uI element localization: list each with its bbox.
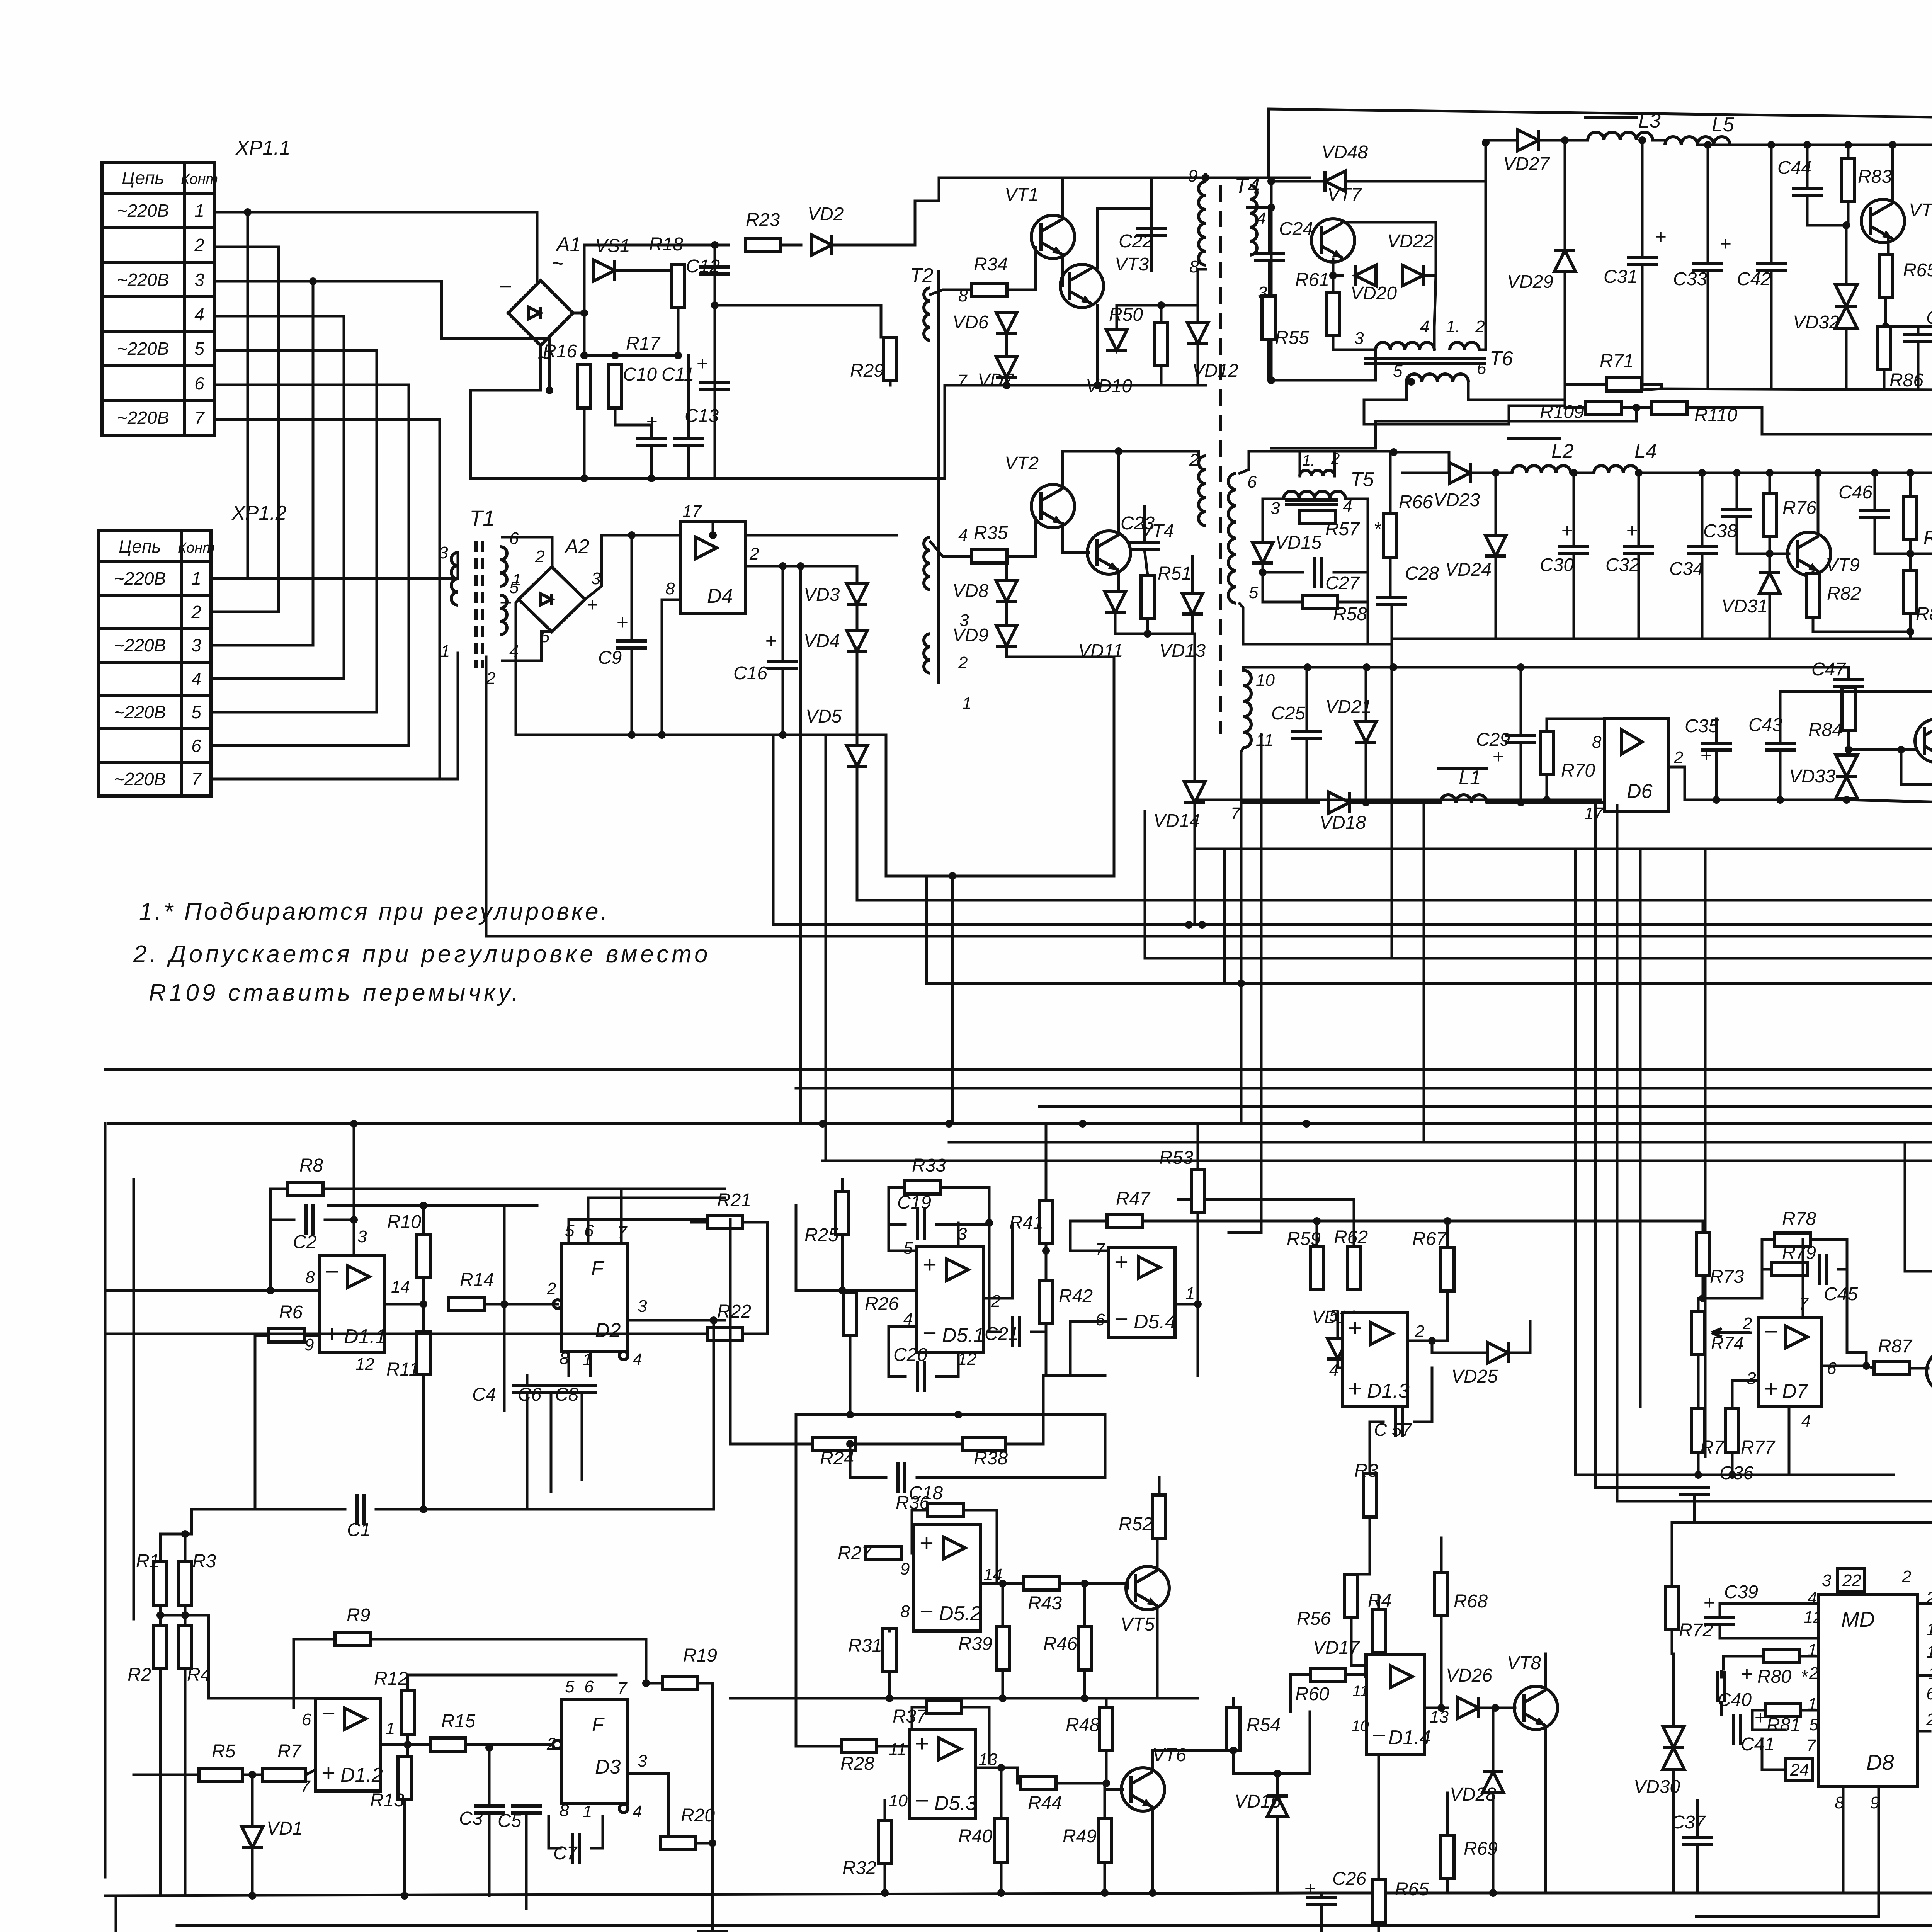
resistor R87	[1874, 1336, 1913, 1375]
svg-text:C36: C36	[1719, 1463, 1753, 1483]
junction	[420, 1300, 427, 1308]
wire C11 v2	[687, 446, 690, 478]
svg-text:13: 13	[978, 1750, 997, 1769]
wire VT1 collector	[1061, 178, 1064, 219]
wire C26 v	[1320, 1893, 1323, 1898]
wire y3160 link2	[1447, 1220, 1703, 1223]
wire R48 top	[1105, 1698, 1108, 1707]
resistor R26	[844, 1293, 899, 1336]
svg-text:3: 3	[1270, 499, 1280, 518]
svg-text:R54: R54	[1247, 1715, 1281, 1735]
resistor R3	[179, 1551, 216, 1605]
wire A1 right	[573, 312, 584, 315]
svg-text:R22: R22	[717, 1301, 751, 1322]
wire R36 loop	[912, 1510, 931, 1553]
wire VD32 bottom	[1845, 328, 1848, 389]
junction	[711, 241, 719, 249]
resistor R44	[1020, 1777, 1062, 1813]
svg-text:C48: C48	[1926, 308, 1932, 328]
capacitor C8	[555, 1384, 597, 1405]
wire C23 top	[1143, 506, 1146, 543]
wire R70 top	[1547, 719, 1604, 731]
svg-text:5: 5	[565, 1677, 575, 1696]
junction	[1906, 550, 1914, 558]
junction	[838, 1287, 846, 1294]
wire XP1.1 pin1 to A1	[248, 212, 537, 281]
op-amp D1.1	[319, 1255, 386, 1353]
wire VS1 to R18	[615, 264, 678, 270]
wire D2 pin1 bottom	[589, 1351, 592, 1376]
junction	[1766, 469, 1774, 477]
capacitor C24	[1254, 219, 1313, 260]
capacitor C34	[1669, 547, 1718, 579]
wire trunk 4983	[177, 1924, 1932, 1927]
capacitor C33	[1673, 233, 1731, 289]
junction	[1267, 177, 1275, 185]
wire VT8 collector	[1544, 1654, 1547, 1689]
wire R29 bottom	[889, 381, 892, 385]
junction	[1267, 204, 1275, 211]
wire C3 v2	[488, 1813, 491, 1896]
wire R84 node to VT11	[1849, 748, 1915, 751]
wire T4-9 top	[1204, 175, 1207, 178]
wire R65-R86	[1884, 298, 1887, 327]
resistor R35	[971, 523, 1008, 563]
capacitor C2	[293, 1204, 316, 1252]
svg-text:8: 8	[305, 1268, 315, 1287]
diode VD14	[1153, 782, 1205, 831]
svg-text:R81: R81	[1767, 1715, 1801, 1735]
svg-text:VD10: VD10	[1086, 376, 1132, 396]
wire R78 loop	[1762, 1240, 1775, 1269]
junction	[1390, 448, 1398, 456]
svg-text:13: 13	[1430, 1708, 1449, 1726]
wire R8 loop	[270, 1189, 319, 1291]
wire D4 out	[745, 565, 857, 568]
wire C12	[714, 245, 716, 305]
wire VD25 right	[1508, 1321, 1530, 1353]
svg-text:7: 7	[194, 408, 205, 428]
svg-text:6: 6	[302, 1710, 311, 1729]
wire VT8 emitter	[1544, 1726, 1547, 1893]
junction	[1081, 1580, 1088, 1587]
junction	[309, 277, 317, 285]
svg-text:22: 22	[1842, 1571, 1861, 1590]
svg-text:C46: C46	[1838, 482, 1872, 503]
svg-text:VD23: VD23	[1434, 490, 1480, 510]
svg-text:VD25: VD25	[1451, 1366, 1498, 1387]
wire C7 wires	[549, 1816, 560, 1848]
svg-text:R76: R76	[1782, 498, 1816, 518]
resistor R34	[971, 254, 1008, 296]
wire R49 top	[1104, 1783, 1106, 1819]
wire R72 bottom	[1671, 1630, 1673, 1654]
wire D7 out	[1821, 1365, 1866, 1367]
svg-text:+: +	[1114, 1249, 1128, 1276]
D2 inverter circle	[553, 1300, 562, 1308]
junction	[1274, 1770, 1281, 1777]
svg-text:2: 2	[191, 602, 201, 622]
wire R84 v	[1847, 731, 1850, 750]
wire R19 left	[646, 1682, 662, 1685]
svg-text:12: 12	[355, 1355, 374, 1374]
resistor R65	[1879, 255, 1932, 298]
svg-text:R33: R33	[912, 1155, 946, 1176]
wire R46 top	[1083, 1583, 1086, 1627]
wire R69 bottom	[1446, 1879, 1449, 1893]
wire C34 v	[1701, 473, 1704, 547]
wire VD30 v	[1672, 1654, 1675, 1726]
svg-text:F: F	[591, 1257, 605, 1280]
wire T5 2 stub	[1333, 451, 1336, 476]
wire R81 right	[1801, 1709, 1818, 1712]
wire R56 bottom	[1351, 1617, 1365, 1665]
junction	[1492, 469, 1500, 477]
junction	[1102, 1779, 1110, 1787]
wire R52 top	[1158, 1478, 1161, 1495]
D8 pin 24 box	[1785, 1758, 1812, 1781]
svg-text:3: 3	[191, 635, 201, 655]
resistor R3	[1354, 1461, 1378, 1517]
wire R48 bottom	[1105, 1750, 1108, 1783]
wire C11 v	[687, 355, 690, 439]
resistor R32	[842, 1820, 891, 1878]
wire vtrunk 4413	[1704, 849, 1707, 1457]
wire VD26 out	[1479, 1707, 1515, 1709]
wire VT4 emitter	[1117, 571, 1120, 592]
wire T6-4 up	[1434, 276, 1436, 350]
D4 triangle	[696, 537, 717, 559]
svg-text:VD9: VD9	[952, 625, 988, 646]
wire C37 v2	[1696, 1845, 1699, 1893]
wire VT5 emitter	[1156, 1607, 1159, 1698]
wire R109-R110	[1621, 406, 1651, 409]
junction	[846, 1440, 854, 1448]
wire VD16 bottom	[1276, 1817, 1279, 1893]
svg-text:6: 6	[1247, 473, 1257, 492]
wire R5-R7	[242, 1774, 262, 1776]
op-amp D5.2	[914, 1524, 981, 1631]
wire R20 right	[696, 1842, 713, 1845]
wire VD27 anode	[1486, 139, 1518, 142]
svg-text:VD26: VD26	[1446, 1665, 1492, 1686]
svg-text:VT2: VT2	[1005, 453, 1039, 474]
svg-text:14: 14	[391, 1277, 410, 1296]
svg-text:R88: R88	[1923, 528, 1932, 548]
wire C50 wires	[1917, 1730, 1930, 1733]
wire vert 2072	[799, 566, 802, 1124]
wire D3 out	[628, 1774, 668, 1843]
T2 winding 8-7	[924, 288, 930, 340]
svg-text:R40: R40	[958, 1826, 992, 1847]
wire T6-6 down	[1468, 382, 1565, 400]
junction	[658, 731, 666, 739]
svg-text:3: 3	[1354, 329, 1364, 348]
wire node R16 top	[584, 354, 678, 357]
junction	[401, 1892, 408, 1900]
wire bus 1006	[1642, 389, 1662, 390]
wire R4 top	[1378, 1596, 1380, 1610]
svg-text:R39: R39	[958, 1634, 992, 1654]
capacitor C30	[1540, 519, 1589, 575]
svg-text:VD16: VD16	[1235, 1791, 1281, 1812]
svg-text:R47: R47	[1116, 1189, 1151, 1209]
diode VD17	[1313, 1638, 1386, 1676]
wire R3 to R56	[1351, 1538, 1370, 1574]
capacitor C29	[1476, 730, 1536, 768]
svg-text:R70: R70	[1561, 760, 1595, 781]
wire R59 top	[1316, 1221, 1318, 1246]
svg-text:4: 4	[633, 1350, 642, 1369]
junction	[1444, 1217, 1451, 1225]
resistor R69	[1441, 1835, 1498, 1879]
wire VD19 out	[1338, 1359, 1342, 1368]
wire VT5 base	[1126, 1583, 1129, 1588]
zener diode VD29	[1507, 250, 1575, 292]
junction	[674, 352, 682, 359]
wire C1 left	[192, 1508, 345, 1511]
junction	[1428, 1337, 1436, 1345]
capacitor C28	[1376, 563, 1439, 605]
wire C23-R51	[1145, 550, 1148, 575]
resistor R5	[199, 1741, 242, 1781]
wire R53 node right	[1198, 1220, 1229, 1223]
svg-text:VD6: VD6	[952, 312, 989, 333]
wire R34 to VT1 base	[1007, 247, 1036, 290]
wire R76 bottom	[1769, 536, 1771, 554]
wire VD31 top	[1769, 554, 1771, 573]
svg-text:VD32: VD32	[1793, 312, 1839, 333]
diode VD11	[1078, 592, 1126, 661]
svg-text:R27: R27	[838, 1543, 872, 1563]
svg-text:5: 5	[1249, 583, 1259, 602]
wire T4-11 down	[1241, 748, 1319, 803]
T1 primary winding	[451, 553, 458, 605]
svg-text:~220В: ~220В	[117, 338, 169, 359]
svg-text:C4: C4	[472, 1384, 496, 1405]
wire D2 pin5 up	[569, 1219, 730, 1244]
wire R43 right	[1059, 1582, 1128, 1585]
junction	[1766, 550, 1774, 558]
wire VD28 v	[1492, 1708, 1495, 1772]
IC D8	[1818, 1594, 1917, 1786]
svg-text:C25: C25	[1271, 703, 1305, 724]
resistor R109	[1540, 401, 1621, 422]
svg-text:2: 2	[991, 1292, 1000, 1311]
svg-text:R84: R84	[1808, 720, 1842, 740]
resistor R49	[1063, 1819, 1111, 1862]
capacitor C48	[1903, 308, 1932, 342]
wire R1-R2	[159, 1605, 162, 1625]
svg-text:T5: T5	[1350, 468, 1374, 491]
wire R73 bus	[1703, 1269, 1762, 1298]
resistor R4	[179, 1625, 211, 1685]
wire C22	[1150, 178, 1153, 270]
svg-text:R12: R12	[374, 1668, 408, 1689]
wire R78 right	[1810, 1240, 1847, 1269]
wire R44 wires	[1017, 1768, 1020, 1783]
svg-text:R31: R31	[848, 1636, 882, 1656]
junction	[611, 352, 619, 359]
wire vert 2398	[925, 876, 928, 983]
wire trunk 2480	[1145, 957, 1932, 960]
wire C18 left	[850, 1444, 886, 1478]
svg-text:2: 2	[194, 235, 204, 255]
junction	[1862, 1362, 1870, 1370]
svg-text:R11: R11	[386, 1359, 419, 1380]
svg-text:C38: C38	[1703, 521, 1737, 541]
svg-text:D3: D3	[595, 1756, 621, 1778]
junction	[350, 1120, 358, 1128]
wire bottom gnd bus D2	[504, 1320, 714, 1509]
resistor R52	[1119, 1495, 1166, 1538]
svg-text:VT8: VT8	[1507, 1653, 1541, 1673]
svg-text:Конт: Конт	[178, 540, 215, 556]
wire T2-4 to R35	[930, 542, 971, 556]
junction	[267, 1287, 274, 1294]
svg-text:R82: R82	[1827, 583, 1861, 604]
resistor R65	[1372, 1879, 1429, 1923]
junction	[1635, 469, 1643, 477]
resistor R33	[905, 1155, 946, 1194]
svg-text:R32: R32	[842, 1858, 876, 1878]
svg-text:4: 4	[1420, 317, 1429, 336]
svg-text:R4: R4	[187, 1665, 211, 1685]
svg-text:VD17: VD17	[1313, 1638, 1360, 1658]
svg-text:11: 11	[1256, 731, 1274, 750]
svg-text:6: 6	[1926, 1684, 1932, 1703]
wire VD29 v2	[1564, 271, 1566, 384]
T4 core	[1219, 185, 1222, 734]
resistor R21	[707, 1190, 751, 1229]
diode VD9	[952, 625, 1017, 646]
svg-text:C10: C10	[623, 364, 657, 385]
svg-text:R29: R29	[850, 361, 884, 381]
junction	[485, 1744, 493, 1752]
wire R70 bottom	[1546, 775, 1548, 800]
wire R6 left	[255, 1335, 269, 1509]
zener diode VD31	[1721, 573, 1780, 617]
resistor R73	[1696, 1232, 1744, 1287]
svg-text:1: 1	[962, 694, 971, 713]
resistor R72	[1665, 1587, 1713, 1641]
resistor R13	[370, 1756, 411, 1811]
capacitor C1	[347, 1494, 371, 1540]
wire C39 to D8	[1720, 1604, 1818, 1618]
svg-text:24: 24	[1790, 1760, 1809, 1779]
svg-text:~220В: ~220В	[114, 568, 166, 588]
junction	[1704, 141, 1712, 149]
wire C26 v2	[1320, 1905, 1323, 1932]
resistor R43	[1024, 1577, 1062, 1614]
resistor R77	[1726, 1409, 1776, 1458]
wire VD14 bottom	[1194, 803, 1196, 849]
svg-text:+: +	[1348, 1315, 1362, 1342]
junction	[1081, 1694, 1088, 1702]
wire L2 rail left	[1389, 452, 1392, 473]
junction	[1882, 323, 1889, 330]
resistor R41	[1009, 1201, 1053, 1244]
wire trunk 2816	[796, 1087, 1932, 1090]
resistor R57	[1300, 510, 1360, 539]
wire rail 1727	[1243, 667, 1849, 670]
wire VT2 collector	[1063, 451, 1199, 488]
wire VD19 top	[1337, 1312, 1339, 1338]
junction	[1897, 746, 1905, 753]
wire R25 bottom	[841, 1235, 844, 1291]
connector table ХР1.1	[102, 137, 291, 435]
wire C31 v2	[1641, 264, 1644, 390]
svg-text:VT10: VT10	[1909, 200, 1932, 221]
diode VD6	[952, 312, 1017, 333]
wire R37 loop	[912, 1707, 927, 1762]
wire C7 right	[591, 1816, 603, 1848]
svg-text:VD48: VD48	[1321, 142, 1368, 163]
wire vtrunk 4077	[1574, 849, 1577, 1475]
wire VD32 v	[1845, 225, 1848, 285]
resistor R31	[848, 1628, 896, 1672]
svg-text:R68: R68	[1454, 1591, 1488, 1612]
svg-text:11: 11	[889, 1740, 906, 1759]
svg-text:R66: R66	[1399, 492, 1433, 512]
junction	[886, 1694, 893, 1702]
wire VT6 base	[1106, 1788, 1123, 1791]
resistor R70	[1540, 731, 1595, 781]
wire pin8 down	[1842, 1786, 1845, 1893]
wire y3160 link	[1198, 1220, 1447, 1223]
capacitor C31	[1604, 226, 1666, 287]
svg-text:R15: R15	[441, 1711, 475, 1731]
junction	[1101, 1889, 1109, 1897]
svg-text:VD29: VD29	[1507, 272, 1553, 292]
D3 inverter circle	[553, 1740, 561, 1749]
wire R71 right	[1642, 384, 1932, 390]
wire XP1.1 pin 1	[211, 212, 248, 578]
op-amp D5.1	[917, 1246, 985, 1353]
junction	[711, 301, 719, 309]
junction	[1079, 1120, 1087, 1128]
svg-text:Конт: Конт	[181, 171, 218, 187]
wire R39 top	[1002, 1583, 1004, 1627]
wire D7 pin4 down	[1788, 1407, 1791, 1475]
svg-text:L4: L4	[1634, 440, 1657, 463]
svg-text:3: 3	[1747, 1369, 1756, 1388]
wire R4 bottom	[1378, 1653, 1380, 1866]
svg-text:R60: R60	[1295, 1684, 1329, 1704]
wire XP1.1 pin3 to A1	[313, 281, 549, 390]
resistor R66	[1384, 492, 1433, 557]
op-amp D1.3	[1342, 1313, 1410, 1407]
wire C45 node down	[1846, 1269, 1849, 1352]
transistor VT5	[1121, 1566, 1169, 1635]
wire VD10 R50 VD12 row	[1117, 304, 1198, 307]
svg-text:8: 8	[900, 1602, 910, 1621]
wire trunk 3004	[823, 1160, 1932, 1162]
svg-text:2: 2	[1189, 451, 1199, 469]
wire R10-R14 node	[422, 1278, 425, 1331]
wire C16 v	[782, 566, 784, 661]
resistor R18	[649, 234, 685, 308]
wire R49 bottom	[1104, 1862, 1106, 1893]
resistor R14	[449, 1270, 494, 1311]
inductor L4	[1594, 440, 1657, 473]
wire R4 bottom	[184, 1668, 187, 1896]
bridge rectifier A1	[498, 233, 581, 369]
diode VD26	[1446, 1665, 1492, 1718]
op-amp D1.4	[1366, 1655, 1431, 1754]
svg-text:C9: C9	[598, 648, 622, 668]
svg-text:2. Допускается при регулир: 2. Допускается при регулировке вместо	[133, 941, 711, 968]
